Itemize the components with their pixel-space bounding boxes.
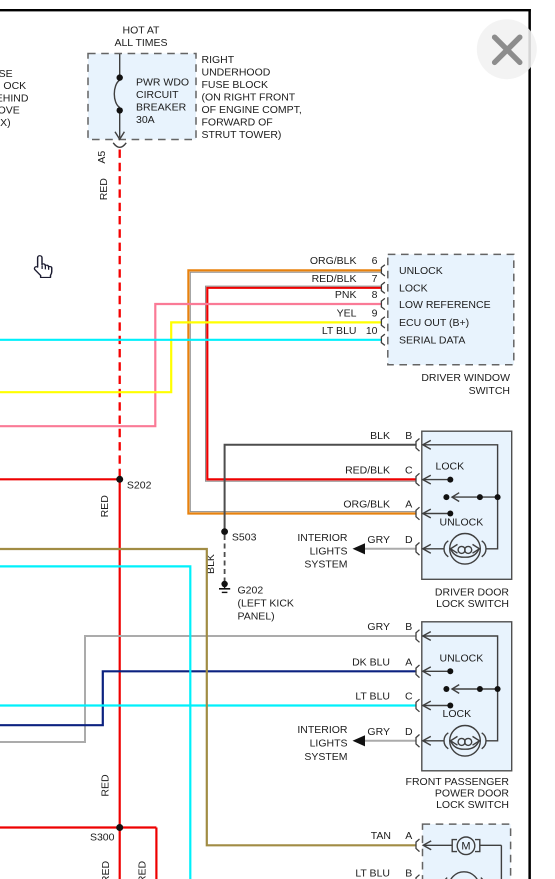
CLOSE BUTTON: [477, 19, 537, 79]
wire RED horizontal into S202 from left: [0, 478, 120, 480]
svg-text:RED: RED: [100, 774, 112, 797]
svg-text:OVE: OVE: [0, 105, 20, 117]
svg-text:BLK: BLK: [370, 430, 390, 442]
svg-text:RED: RED: [100, 860, 112, 879]
svg-text:A: A: [405, 499, 412, 511]
svg-text:RED/BLK: RED/BLK: [312, 273, 357, 285]
svg-text:LOW REFERENCE: LOW REFERENCE: [399, 299, 491, 311]
svg-text:UNDERHOOD: UNDERHOOD: [202, 67, 271, 79]
label DRIVER DOOR LOCK SWITCH: [435, 586, 510, 609]
wire YEL pin9: [0, 322, 382, 392]
svg-text:RED: RED: [99, 495, 111, 518]
svg-text:SE: SE: [0, 68, 13, 80]
node S503: [221, 528, 228, 535]
svg-text:SYSTEM: SYSTEM: [304, 751, 347, 763]
connector U1 DRIVER WINDOW SWITCH dashed box: [388, 254, 514, 364]
wire ORG/BLK pin6 to driver lock pin A: [188, 270, 416, 513]
svg-text:LOCK: LOCK: [399, 283, 428, 295]
svg-text:FRONT PASSENGER: FRONT PASSENGER: [406, 776, 510, 788]
svg-text:FORWARD OF: FORWARD OF: [202, 117, 273, 129]
driver lock switch internals: [423, 440, 498, 553]
svg-text:X): X): [0, 117, 11, 129]
svg-text:RED: RED: [137, 860, 149, 879]
svg-text:D: D: [405, 726, 413, 738]
svg-text:LT BLU: LT BLU: [355, 868, 390, 879]
svg-text:LOCK: LOCK: [443, 708, 472, 720]
svg-text:GRY: GRY: [367, 534, 390, 546]
wire LT BLU vertical (to actuator pin B): [0, 566, 190, 879]
svg-text:LOCK SWITCH: LOCK SWITCH: [436, 598, 509, 610]
svg-text:A: A: [405, 830, 412, 842]
svg-text:(ON RIGHT FRONT: (ON RIGHT FRONT: [202, 92, 296, 104]
wire RED dashed from breaker to S202: [119, 150, 121, 480]
label FRONT PASSENGER POWER DOOR LOCK SWITCH: [406, 776, 510, 811]
svg-text:LOCK: LOCK: [436, 460, 465, 472]
svg-text:B: B: [405, 621, 412, 633]
svg-text:INTERIOR: INTERIOR: [297, 532, 348, 544]
svg-text:6: 6: [372, 255, 378, 267]
pin brackets front passenger lock switch: [416, 630, 420, 747]
wire PNK pin8: [0, 304, 382, 426]
svg-text:RED: RED: [98, 178, 110, 201]
svg-text:C: C: [405, 465, 413, 477]
pin labels driver door lock switch: [343, 430, 390, 546]
svg-text:A5: A5: [96, 151, 108, 164]
svg-text:C: C: [405, 691, 413, 703]
right underhood fuse block text: [202, 54, 302, 141]
svg-text:PNK: PNK: [335, 289, 357, 301]
svg-text:LIGHTS: LIGHTS: [310, 737, 348, 749]
svg-text:TAN: TAN: [371, 830, 391, 842]
svg-text:POWER DOOR: POWER DOOR: [435, 788, 510, 800]
wire BLK from driver lock pin B to S503: [225, 445, 416, 532]
svg-text:BREAKER: BREAKER: [136, 101, 187, 113]
wire RED down-right below S300: [155, 828, 157, 879]
pin brackets driver door lock switch: [416, 439, 420, 556]
label DRIVER WINDOW SWITCH: [421, 372, 510, 397]
svg-text:(LEFT KICK: (LEFT KICK: [238, 598, 294, 610]
wire RED/BLK pin7 to driver lock pin C: [207, 288, 416, 480]
svg-text:B: B: [405, 430, 412, 442]
svg-text:SYSTEM: SYSTEM: [304, 559, 347, 571]
switch SW2 FRONT PASSENGER POWER DOOR LOCK SWITCH box: [422, 622, 512, 771]
svg-text:LT BLU: LT BLU: [355, 691, 390, 703]
wire GRY passenger pin B: [0, 636, 416, 742]
wire GRY passenger pin D with INTERIOR LIGHTS SYSTEM arrow: [364, 740, 416, 742]
pin labels front passenger lock switch: [352, 621, 390, 738]
svg-text:8: 8: [372, 289, 378, 301]
wire LT BLU passenger pin C: [0, 704, 416, 706]
fuse block PWR WDO CIRCUIT BREAKER dashed box: [88, 54, 196, 140]
pin brackets driver window switch: [381, 265, 385, 346]
svg-text:10: 10: [366, 325, 378, 337]
cursor hand pointer: [34, 256, 51, 278]
wire labels for driver window switch pins: [310, 255, 378, 337]
svg-text:A: A: [405, 656, 412, 668]
svg-text:S202: S202: [127, 480, 152, 492]
svg-text:RED/BLK: RED/BLK: [345, 465, 390, 477]
svg-text:DK BLU: DK BLU: [352, 656, 390, 668]
svg-text:STRUT TOWER): STRUT TOWER): [202, 129, 282, 141]
svg-text:YEL: YEL: [337, 307, 357, 319]
wire RED down-left below S300: [119, 828, 121, 879]
partial lamp symbol at bottom edge: [443, 872, 485, 879]
lamp symbol passenger lock switch: [444, 726, 486, 757]
pin labels door lock actuator: [355, 830, 391, 879]
svg-text:UNLOCK: UNLOCK: [399, 265, 443, 277]
wire LT BLU pin10: [0, 339, 382, 341]
svg-text:UNLOCK: UNLOCK: [440, 516, 484, 528]
svg-text:OF ENGINE COMPT,: OF ENGINE COMPT,: [202, 104, 302, 116]
wire DK BLU passenger pin A: [0, 671, 416, 725]
svg-text:GRY: GRY: [367, 726, 390, 738]
svg-text:M: M: [461, 841, 470, 853]
svg-text:RIGHT: RIGHT: [202, 54, 235, 66]
svg-text:LT BLU: LT BLU: [322, 325, 357, 337]
connector bracket below breaker: [113, 143, 126, 148]
svg-text:HOT AT: HOT AT: [123, 25, 161, 37]
wire TAN to door lock actuator pin A: [0, 549, 416, 845]
svg-text:LIGHTS: LIGHTS: [310, 545, 348, 557]
svg-text:B: B: [405, 868, 412, 879]
node S202: [116, 476, 123, 483]
svg-text:S503: S503: [232, 532, 257, 544]
svg-text:S300: S300: [90, 832, 115, 844]
svg-text:ORG/BLK: ORG/BLK: [343, 499, 390, 511]
svg-text:CIRCUIT: CIRCUIT: [136, 89, 179, 101]
svg-text:9: 9: [372, 307, 378, 319]
svg-text:GRY: GRY: [367, 621, 390, 633]
wire GRY to driver lock pin D with INTERIOR LIGHTS SYSTEM arrow: [364, 548, 416, 550]
switch SW1 DRIVER DOOR LOCK SWITCH box: [422, 431, 512, 579]
svg-text:D: D: [405, 534, 413, 546]
svg-text:SWITCH: SWITCH: [469, 385, 510, 397]
svg-text:FUSE BLOCK: FUSE BLOCK: [202, 79, 269, 91]
svg-text:EHIND: EHIND: [0, 92, 29, 104]
wire BLK dashed S503 to G202: [224, 535, 226, 581]
svg-text:ORG/BLK: ORG/BLK: [310, 255, 357, 267]
node HOT AT ALL TIMES label: [114, 25, 167, 50]
svg-text:G202: G202: [238, 585, 264, 597]
lamp symbol driver lock switch: [444, 534, 486, 565]
svg-text:OCK: OCK: [3, 80, 26, 92]
svg-text:SERIAL DATA: SERIAL DATA: [399, 335, 465, 347]
svg-text:UNLOCK: UNLOCK: [440, 653, 484, 665]
svg-text:PANEL): PANEL): [238, 611, 275, 623]
svg-text:30A: 30A: [136, 114, 155, 126]
motor M1 door lock actuator dashed box (partial at bottom): [423, 824, 511, 879]
svg-text:DRIVER DOOR: DRIVER DOOR: [435, 586, 510, 598]
svg-text:INTERIOR: INTERIOR: [297, 724, 348, 736]
passenger lock switch internals: [423, 632, 498, 746]
svg-text:ECU OUT (B+): ECU OUT (B+): [399, 317, 469, 329]
pin brackets actuator: [416, 839, 420, 879]
svg-text:PWR WDO: PWR WDO: [136, 76, 189, 88]
wire RED horizontal through S300: [0, 826, 156, 828]
actuator motor symbol: [423, 837, 501, 879]
svg-text:ALL TIMES: ALL TIMES: [114, 37, 167, 49]
fuse block left text (cut off at left edge): [0, 68, 29, 129]
svg-text:LOCK SWITCH: LOCK SWITCH: [436, 799, 509, 811]
svg-text:DRIVER WINDOW: DRIVER WINDOW: [421, 372, 510, 384]
ground G202: [219, 581, 230, 593]
svg-text:7: 7: [372, 273, 378, 285]
wire RED solid S202 to S300: [119, 479, 121, 827]
node S300: [116, 824, 123, 831]
circuit breaker 30A symbol: [114, 54, 124, 139]
